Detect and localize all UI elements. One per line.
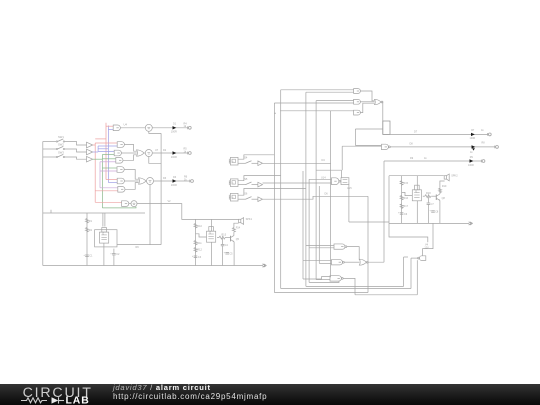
wire v355	[354, 129, 356, 145]
svg-text:SW2: SW2	[58, 143, 64, 147]
wire cluster2 drop	[211, 219, 213, 231]
svg-text:SW1: SW1	[58, 135, 64, 139]
wire red to gate A	[106, 125, 113, 127]
resistor R10	[194, 224, 197, 229]
resistor R14	[233, 233, 235, 236]
svg-text:SW3: SW3	[58, 151, 64, 155]
buffer U11	[258, 182, 263, 187]
wire line2 OUT5	[390, 146, 495, 148]
gate B3 NAND	[116, 158, 123, 164]
svg-text:R10: R10	[197, 225, 202, 228]
svg-text:C3: C3	[198, 256, 202, 259]
wire gate B1 to OR B	[124, 145, 136, 152]
wire line3 OUT6	[384, 160, 482, 162]
wire to NAND F4 in1	[303, 277, 330, 279]
svg-text:D7: D7	[414, 130, 418, 133]
wire gate B3 to OR B	[123, 155, 137, 161]
wire v384 up to line3	[383, 161, 385, 262]
probe arrow line3	[470, 159, 474, 162]
wire M3 down	[149, 185, 151, 245]
svg-text:Q8: Q8	[442, 197, 446, 200]
wire green to gate B3	[102, 158, 115, 160]
buffer U12	[258, 197, 263, 202]
switch arm S4	[246, 161, 252, 164]
wire gate E3 to OR T	[360, 103, 374, 112]
svg-text:Q: Q	[415, 190, 417, 193]
wire gate C1 to OR C	[124, 170, 138, 180]
svg-text:1k: 1k	[424, 157, 427, 160]
wire line1 OUT4	[383, 133, 489, 135]
svg-text:U14: U14	[321, 176, 326, 179]
terminal OUT1	[187, 126, 189, 129]
box U15	[341, 178, 349, 185]
svg-text:R14: R14	[236, 227, 241, 230]
svg-text:100R: 100R	[171, 156, 177, 159]
wire blue to gate C2	[108, 182, 117, 184]
wire M4 to cluster2	[137, 204, 239, 220]
wire to gate E2 input1	[316, 100, 354, 102]
wire S5 out to gate U14	[263, 182, 332, 184]
wire SW1 to buffer	[65, 142, 87, 146]
wire buffer3 out to green net	[93, 158, 103, 160]
switch arm S5	[246, 182, 252, 185]
resistor R11	[194, 241, 197, 246]
svg-text:SPK2: SPK2	[451, 175, 458, 178]
wire gate E1 to OR T	[360, 91, 374, 101]
wire cluster2 block to rail	[211, 242, 213, 265]
gate A NAND	[113, 125, 120, 131]
wire feed SW2	[43, 148, 56, 150]
svg-text:1k: 1k	[470, 151, 473, 154]
or gate B	[137, 150, 145, 156]
wire loop y286	[306, 285, 404, 287]
wire Q5 emitter to rail	[233, 242, 235, 266]
probe arrow row B	[173, 151, 177, 154]
svg-text:Q5: Q5	[236, 238, 240, 241]
wire to gate E3 input1	[280, 110, 354, 112]
wire R-chain vertical cluster1	[86, 213, 88, 266]
resistor R1	[86, 219, 89, 224]
CircuitLab logo	[0, 384, 110, 405]
wire bus v305	[305, 92, 307, 286]
wire SW2 to buffer	[65, 149, 87, 152]
capacitor C1	[85, 254, 89, 256]
wire gate C3 to OR C	[125, 183, 139, 190]
svg-text:D6: D6	[325, 193, 329, 196]
buffer U2	[87, 149, 93, 155]
wire M1 to terminal OUT1	[152, 127, 187, 129]
svg-text:S6: S6	[244, 192, 248, 196]
svg-text:100R: 100R	[468, 164, 474, 167]
gate E1 AND	[354, 89, 361, 94]
mosfet block Q1 Q2	[100, 232, 109, 243]
wire blue net B1 vertical	[97, 146, 99, 152]
svg-text:C2: C2	[116, 253, 120, 256]
wire OR C to M3	[145, 180, 148, 182]
mosfet block Q6 Q7	[412, 190, 421, 201]
wire gate A to M1	[120, 127, 145, 129]
wire cluster3 left vert	[388, 176, 390, 224]
box V3 battery	[383, 121, 390, 135]
wire red to gate C2	[106, 179, 117, 181]
wire S4 out to bus	[263, 162, 331, 164]
wire S5 to buffer	[238, 184, 246, 186]
wire M2 to terminal OUT2	[152, 152, 187, 154]
wire red to gate D	[95, 201, 121, 203]
probe arrow row C	[173, 179, 177, 182]
wire R-chain vertical cluster2	[195, 219, 197, 265]
svg-text:R1: R1	[89, 220, 93, 223]
wire bus v309	[308, 179, 310, 282]
resistor R2	[86, 228, 89, 233]
svg-text:C5: C5	[229, 252, 233, 255]
svg-text:D1: D1	[173, 123, 177, 126]
capacitor C2	[112, 253, 116, 255]
wire S6 to buffer	[238, 198, 246, 200]
svg-text:C4: C4	[225, 244, 229, 247]
wire cluster1 drops	[102, 213, 104, 227]
terminal OUT5	[494, 146, 496, 149]
svg-text:R8: R8	[482, 142, 486, 145]
svg-text:C7: C7	[431, 203, 435, 206]
pushbutton S4	[230, 157, 238, 165]
switch arm S6	[246, 197, 252, 200]
svg-text:+: +	[224, 252, 226, 255]
wire blue link	[98, 148, 108, 150]
wire to gate E3 input2	[274, 112, 276, 114]
wire bus v342	[341, 146, 343, 170]
indicator M2	[145, 150, 152, 157]
wire to gate L2 input1	[342, 145, 381, 147]
wire Q8 emitter to rail	[439, 200, 441, 223]
capacitor C6	[400, 212, 404, 214]
svg-text:D3: D3	[163, 177, 167, 180]
svg-text:C8: C8	[435, 211, 439, 214]
wire to gate E1 input2	[306, 91, 354, 93]
wire green to circle D	[102, 207, 136, 208]
wire block3 gate link	[402, 192, 413, 195]
probe arrow line2	[472, 145, 476, 148]
svg-text:V2: V2	[168, 200, 172, 203]
wire bus v319	[318, 186, 320, 263]
resistor R17	[400, 204, 403, 209]
wire S4 to buffer	[238, 162, 246, 164]
svg-text:R17: R17	[403, 205, 408, 208]
wire red net R1 vertical	[94, 143, 96, 202]
wire link y170	[316, 169, 341, 171]
wire to gate L2 input2	[355, 144, 381, 146]
wire bus v280	[280, 90, 282, 289]
terminal bottom rail end	[262, 264, 265, 266]
wire box down to rail3	[348, 185, 350, 222]
gate G1 NAND left-facing	[419, 256, 425, 261]
svg-text:+: +	[192, 255, 194, 258]
svg-text:C6: C6	[404, 213, 408, 216]
wire S5 top branch	[238, 176, 281, 181]
wire feed SW3	[43, 156, 56, 158]
svg-text:D3: D3	[173, 176, 177, 179]
probe arrow row A	[173, 126, 177, 129]
probe arrow line1	[471, 133, 475, 136]
svg-text:R13: R13	[222, 233, 227, 236]
wire cluster1 to rail	[103, 243, 105, 265]
wire F2 out	[344, 261, 360, 263]
wire bus v316	[315, 101, 317, 280]
svg-text:C1: C1	[89, 255, 93, 258]
gate D NAND	[122, 201, 129, 207]
wire gate G1 links	[404, 256, 408, 258]
gate B2 NAND	[114, 150, 121, 156]
wire to NAND F2 in2	[319, 262, 331, 264]
svg-text:R16: R16	[403, 197, 408, 200]
wire M1 down	[149, 131, 161, 133]
svg-text:LAB: LAB	[66, 396, 90, 405]
svg-text:U15: U15	[347, 187, 352, 190]
gate B1 NAND	[117, 142, 124, 148]
wire G1 top feed	[423, 223, 433, 255]
wire OR T down to line1	[381, 102, 384, 134]
wire green net G1 vertical	[101, 155, 103, 208]
svg-text:R7: R7	[471, 129, 475, 132]
wire SW3 to buffer	[65, 157, 87, 159]
wire v403	[403, 257, 405, 286]
wire bus v368	[367, 196, 369, 292]
capacitor C7	[427, 196, 429, 202]
wire to NAND F1 in1	[306, 245, 334, 247]
svg-text:U7: U7	[155, 149, 159, 152]
svg-text:D2: D2	[163, 149, 167, 152]
wire purple to gate C3	[100, 187, 118, 189]
gate F1 NAND	[334, 244, 345, 249]
wire to NAND F1 in2	[309, 247, 334, 249]
svg-text:+: +	[110, 252, 112, 255]
wire to NAND F4 in2	[316, 279, 330, 281]
switch SW1	[56, 141, 57, 142]
wire loop y292	[274, 292, 368, 294]
wire S4 top branch	[238, 155, 274, 159]
wire green to gate C1	[102, 167, 117, 169]
switch SW2	[56, 148, 57, 149]
gate L2 NAND	[382, 144, 389, 149]
wire OR F3 to v384	[367, 261, 384, 263]
svg-text:R18: R18	[426, 192, 431, 195]
svg-text:D4: D4	[322, 159, 326, 162]
terminal OUT4	[487, 133, 489, 136]
speaker SPK2	[444, 176, 446, 179]
wire blue to gate B1	[98, 145, 117, 147]
wire cluster3 gnd stub	[389, 223, 428, 242]
resistor R19	[439, 188, 441, 194]
terminal OUT3	[189, 180, 191, 183]
wire green to gate B2	[102, 154, 114, 156]
wire gate B2 to OR B	[121, 152, 136, 154]
wire purple net P1 vertical	[99, 162, 101, 188]
wire red net R2 vertical	[105, 123, 107, 180]
svg-text:1k: 1k	[481, 129, 484, 132]
wire cluster3 top rail	[389, 175, 444, 177]
gate F4 NAND	[330, 276, 341, 281]
wire OR B to M2	[144, 152, 145, 154]
wire blue net B2 vertical	[107, 126, 109, 183]
wire M2 down	[149, 157, 161, 164]
indicator M3	[147, 178, 154, 185]
wire F1 out	[346, 247, 359, 260]
wire top rail V1	[43, 212, 145, 214]
svg-text:R15: R15	[403, 182, 408, 185]
wire buffer1 out to red net	[93, 144, 96, 146]
svg-text:+: +	[398, 212, 400, 215]
pushbutton S5	[230, 179, 238, 187]
gate C1 NAND	[117, 167, 124, 173]
terminal OUT6	[480, 160, 482, 163]
wire Q8 collector to speaker	[440, 181, 445, 188]
wire block3 to rail	[416, 201, 418, 224]
wire gate C2 to OR C	[124, 180, 138, 182]
wire bus v303	[302, 171, 304, 261]
svg-text:R12: R12	[197, 248, 202, 251]
svg-text:U4: U4	[124, 123, 128, 127]
wire left supply bus vertical	[42, 142, 44, 266]
svg-text:100R: 100R	[171, 184, 177, 187]
capacitor C3	[194, 255, 198, 257]
wire gate E2 to OR T	[360, 101, 374, 103]
svg-text:R19: R19	[442, 185, 447, 188]
resistor R15	[400, 181, 403, 186]
wire buffer2 out to blue net	[93, 151, 98, 153]
wire cluster3 bottom rail	[349, 221, 389, 223]
wire gate D link	[129, 203, 131, 205]
wire Q5 collector to speaker	[234, 223, 239, 227]
buffer U1	[87, 142, 93, 148]
wire S6 out to bus	[263, 196, 369, 199]
wire v417	[416, 260, 418, 295]
capacitor C4	[222, 238, 224, 244]
svg-text:Q: Q	[209, 231, 211, 234]
wire red to gate C3	[95, 190, 118, 192]
svg-text:S5: S5	[244, 177, 248, 181]
capacitor C5	[225, 252, 229, 254]
capacitor C8	[431, 210, 435, 212]
wire bus v330	[330, 111, 332, 277]
wire loop y294	[355, 294, 417, 296]
buffer U10	[258, 161, 263, 166]
wire to gate E2 input2	[274, 102, 353, 104]
wire S5 branch to U14 in1	[309, 178, 331, 180]
svg-text:Q: Q	[102, 232, 104, 235]
resistor R16	[400, 196, 403, 201]
svg-text:12V: 12V	[424, 246, 429, 249]
pushbutton S6	[230, 193, 238, 201]
wire blue to gate A	[108, 128, 113, 130]
wire F4 bottom link	[309, 281, 339, 282]
wire S6 top branch	[238, 189, 306, 196]
gate C2 NAND	[117, 178, 124, 184]
wire M3 to terminal OUT3	[154, 180, 191, 182]
terminal rail3 end	[469, 222, 472, 224]
switch SW3	[56, 156, 57, 157]
or gate F3	[359, 259, 366, 265]
speaker SPK1	[239, 219, 241, 222]
wire block gate link	[196, 234, 207, 237]
or gate T	[375, 99, 382, 104]
gate U14 NAND	[332, 178, 339, 185]
wire bottom rail	[43, 265, 263, 267]
wire to NAND F2 in1	[303, 260, 332, 262]
svg-text:+: +	[429, 210, 431, 213]
wire purple to gate B3	[100, 161, 116, 163]
svg-text:100R: 100R	[171, 131, 177, 134]
wire blue to gate B2	[98, 151, 114, 153]
resistor R13	[219, 236, 226, 239]
resistor R18	[425, 195, 432, 198]
wire link y129	[355, 128, 382, 130]
wire purple to gate C1	[100, 170, 117, 172]
wire red link	[95, 138, 106, 140]
mosfet block Q3 Q4	[207, 231, 216, 242]
svg-text:R11: R11	[197, 242, 202, 245]
indicator M4	[131, 201, 137, 207]
transistor Q5	[230, 236, 232, 242]
svg-text:R9: R9	[470, 156, 474, 159]
svg-text:R9: R9	[136, 246, 140, 249]
gate F2 NAND	[332, 260, 343, 265]
wire R-chain vertical cluster3	[401, 176, 403, 224]
svg-text:100R: 100R	[470, 137, 476, 140]
wire column bus x161	[160, 133, 162, 244]
wire v411	[410, 258, 412, 288]
wire F4 out	[343, 278, 355, 294]
wire bus v274	[273, 103, 275, 293]
buffer U3	[87, 156, 93, 162]
svg-text:S4: S4	[244, 156, 248, 160]
svg-text:D8: D8	[410, 143, 414, 146]
resistor R12	[194, 248, 197, 253]
wire red to gate B1	[95, 142, 117, 144]
or gate C	[139, 178, 147, 184]
node top rail tick	[50, 210, 52, 213]
wire feed SW1	[43, 141, 56, 143]
wire cluster3 drop	[416, 176, 418, 190]
svg-text:D9: D9	[410, 157, 414, 160]
terminal OUT2	[187, 152, 189, 155]
svg-text:SPK1: SPK1	[246, 218, 253, 221]
gate C3 NAND	[118, 187, 125, 193]
wire cross link y244	[117, 244, 161, 246]
indicator M1	[145, 124, 152, 131]
svg-text:+: +	[83, 254, 85, 257]
wire to gate E1 input1	[281, 89, 354, 91]
svg-text:R2: R2	[89, 229, 93, 232]
transistor Q8	[435, 194, 437, 200]
gate E3 AND	[354, 110, 361, 115]
wire loop y288	[281, 288, 411, 290]
gate E2 AND	[354, 99, 361, 104]
